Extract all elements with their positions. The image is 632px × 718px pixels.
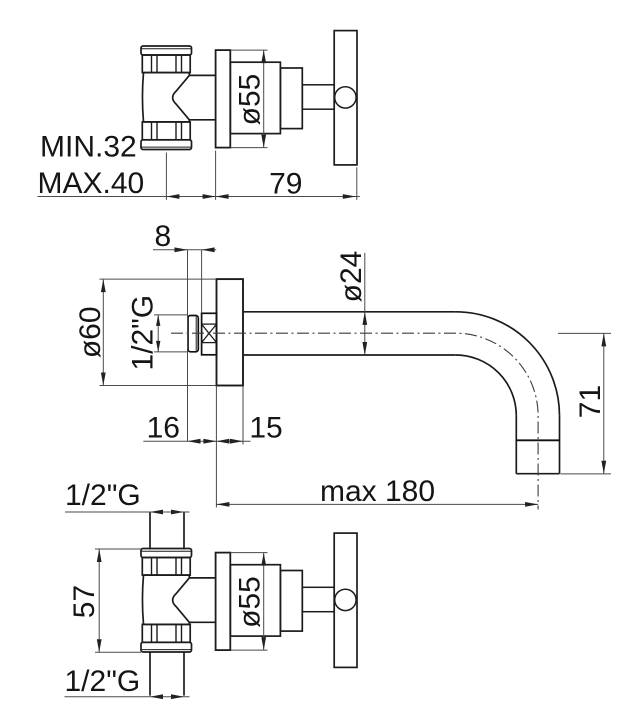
- dim Ø55 line with arrows (top valve): [263, 50, 265, 148]
- extension line valve centre: [165, 153, 167, 200]
- arrow 1/2G bottom left: [150, 694, 163, 699]
- svg-text:8: 8: [154, 220, 171, 253]
- arrow Ø24 top: [362, 312, 367, 325]
- svg-text:1/2"G: 1/2"G: [127, 295, 160, 371]
- spout drop tube right edge: [559, 416, 561, 474]
- valve upper thread band: [142, 558, 190, 576]
- valve bottom cap: [141, 642, 192, 652]
- outlet pipe stub bottom left edge: [149, 652, 151, 695]
- arrow 79 left: [216, 194, 229, 199]
- dim Ø55 line with arrows (bottom valve): [263, 553, 265, 651]
- valve body: [142, 73, 189, 122]
- dim 57 extension lines: [95, 548, 141, 550]
- extension line wall face: [215, 151, 217, 200]
- svg-text:ø55: ø55: [234, 576, 267, 628]
- spout drop tube left edge: [515, 416, 517, 474]
- dim max 180 line: [216, 503, 538, 505]
- arrow 79 right: [343, 194, 356, 199]
- dim Ø60 line with arrows: [102, 279, 104, 385]
- spout inner bend arc: [456, 355, 517, 416]
- arrow max180 right: [525, 502, 538, 507]
- valve top cap: [141, 549, 192, 558]
- valve small cylinder: [280, 68, 302, 129]
- arrow 8 left (outside): [175, 247, 188, 252]
- svg-text:15: 15: [249, 411, 282, 444]
- stop valve assembly (top view): [141, 31, 357, 165]
- arrow 1/2G top right: [171, 510, 184, 515]
- valve outlet connector: [189, 74, 215, 76]
- valve upper thread band: [142, 55, 190, 73]
- dim 8 line: [153, 249, 216, 251]
- svg-text:ø24: ø24: [335, 251, 368, 303]
- handle hub circle: [335, 87, 356, 108]
- spout tube top line: [243, 311, 456, 313]
- extension line x=187.5 (8/16 datum): [187, 250, 189, 441]
- dimension base line MIN.32/MAX.40 and 79: [38, 196, 360, 198]
- dim 1/2G extension lines: [154, 314, 188, 316]
- cross handle bar: [334, 31, 357, 165]
- spout outer bend arc: [456, 312, 560, 416]
- arrow MIN/MAX left: [166, 194, 179, 199]
- stop valve assembly (bottom view): [141, 533, 357, 667]
- svg-text:1/2"G: 1/2"G: [65, 479, 141, 512]
- dim 16/15 line: [143, 440, 250, 442]
- valve body: [142, 575, 189, 624]
- arrow 15 right: [230, 439, 243, 444]
- svg-text:MAX.40: MAX.40: [38, 167, 145, 200]
- valve large cylinder: [230, 565, 280, 636]
- dim Ø24 line: [364, 253, 366, 355]
- extension line handle end: [356, 167, 358, 200]
- arrow 8 right (outside): [202, 247, 215, 252]
- inlet pipe stub top right edge: [183, 512, 185, 550]
- arrow 16 left: [188, 439, 201, 444]
- svg-text:ø60: ø60: [74, 306, 107, 358]
- dim 71 line with arrows: [603, 333, 605, 473]
- valve small cylinder: [280, 571, 302, 632]
- valve bottom cap: [141, 140, 192, 150]
- svg-text:16: 16: [147, 411, 180, 444]
- arrow Ø24 bottom: [362, 342, 367, 355]
- dim 71 extension lines: [558, 332, 611, 334]
- threaded inlet nipple 1/2G: [188, 316, 198, 352]
- svg-text:79: 79: [269, 168, 302, 201]
- spout wall flange plate: [217, 279, 244, 385]
- arrow 15 left: [216, 439, 229, 444]
- arrow 1/2G top left: [150, 510, 163, 515]
- arrow 1/2G bottom right: [171, 694, 184, 699]
- extension line flange right below: [242, 386, 244, 445]
- valve outlet connector: [189, 577, 215, 579]
- arrow max180 left: [216, 502, 229, 507]
- svg-text:MIN.32: MIN.32: [40, 131, 137, 164]
- wall flange plate: [216, 50, 231, 148]
- handle stem: [302, 587, 334, 611]
- svg-text:71: 71: [574, 385, 607, 418]
- dim Ø60 extension lines: [100, 278, 217, 280]
- valve large cylinder: [230, 62, 280, 133]
- spout tube bottom line: [243, 354, 456, 356]
- valve top cap: [141, 46, 192, 55]
- dim 1/2G bottom line: [65, 696, 190, 698]
- arrow MIN/MAX right: [203, 194, 216, 199]
- arrow 16 right: [203, 439, 216, 444]
- dim Ø55 extension lines (bottom valve): [230, 552, 267, 554]
- cross handle bar: [334, 533, 357, 667]
- valve lower thread band: [142, 122, 190, 140]
- dim 1/2G top line: [65, 511, 190, 513]
- valve lower thread band: [142, 624, 190, 642]
- svg-text:max 180: max 180: [320, 475, 435, 508]
- spout aerator joint line: [516, 439, 559, 441]
- extension line flange left below: [215, 386, 217, 508]
- wall flange plate: [216, 553, 231, 651]
- handle hub circle: [335, 589, 356, 610]
- svg-text:1/2"G: 1/2"G: [65, 665, 141, 698]
- outlet pipe stub bottom right edge: [183, 652, 185, 695]
- svg-text:ø55: ø55: [234, 74, 267, 126]
- inlet pipe stub top left edge: [149, 512, 151, 550]
- extension line x=201.6 (8 right): [201, 250, 203, 313]
- spout end edge: [516, 473, 559, 475]
- dim 57 line with arrows: [98, 549, 100, 652]
- handle stem: [302, 85, 334, 109]
- svg-text:57: 57: [68, 585, 101, 618]
- dim Ø55 extension lines (top valve): [230, 49, 267, 51]
- in-wall fitting with cross section X: [202, 313, 217, 355]
- dim 1/2G line with arrows: [157, 315, 159, 352]
- centre line of spout: [171, 333, 538, 509]
